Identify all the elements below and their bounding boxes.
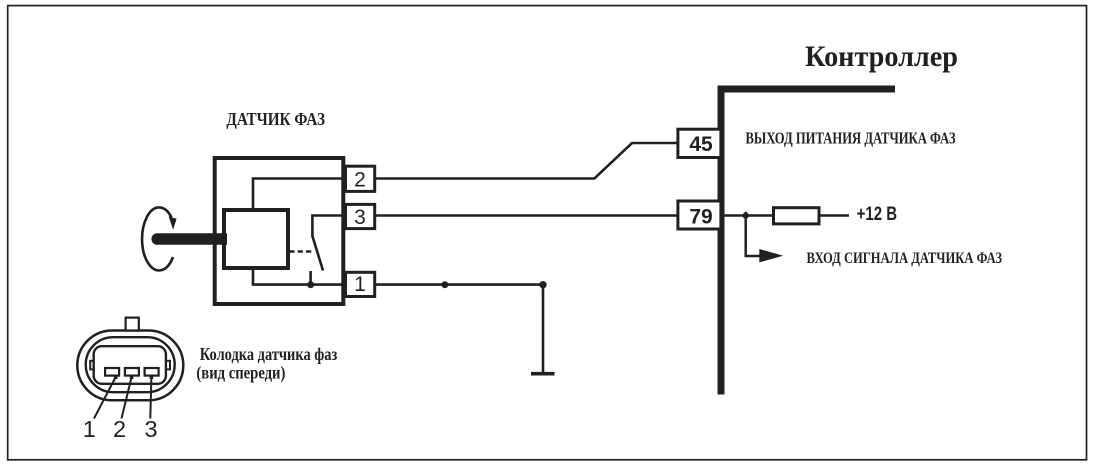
connector pin 1 [105,368,119,379]
wire: resistor to +12 V [821,214,850,217]
svg-text:(вид спереди): (вид спереди) [196,362,285,382]
wire: pin 1 to ground drop [375,283,543,286]
pin 3 [346,204,375,229]
ground [531,285,555,374]
connector shell (колодка outer) [77,331,183,401]
svg-text:ДАТЧИК ФАЗ: ДАТЧИК ФАЗ [226,109,325,129]
wire: inner element to pin 2 [253,179,346,211]
svg-text:ВЫХОД ПИТАНИЯ ДАТЧИКА ФАЗ: ВЫХОД ПИТАНИЯ ДАТЧИКА ФАЗ [746,129,956,148]
signal input arrow [746,218,784,262]
switch blade [312,236,323,271]
svg-text:1: 1 [354,273,366,296]
phase sensor body [215,158,344,304]
terminal 45 [678,129,721,157]
switch contact stub [309,271,312,285]
resistor (pull-up) [774,208,820,224]
wire: pin 3 to terminal 79 [375,214,677,217]
connector socket face with key notches [90,346,170,384]
leader to pin label 1 [94,377,116,419]
connector caption [196,344,337,383]
pin 2 [346,166,375,191]
wire: terminal 79 to resistor [725,214,773,217]
terminal 79 [678,201,721,229]
junction: switch stub on pin-1 wire [307,281,314,288]
junction on ground wire [441,281,448,288]
dashed actuation link [289,250,311,253]
svg-text:Колодка датчика фаз: Колодка датчика фаз [200,344,337,364]
connector pin 2 [125,368,139,379]
wire: pin 2 to terminal 45 [375,143,677,179]
svg-text:3: 3 [354,206,366,229]
svg-text:45: 45 [689,133,713,156]
rotation arrow [142,207,177,270]
junction at ground drop [539,281,546,288]
rotor shaft [151,233,227,245]
wire: switch to pin 3 [312,216,346,238]
junction at terminal 79 [741,211,750,220]
connector pin 3 [145,368,159,379]
controller boundary top bar [718,86,896,93]
svg-text:2: 2 [354,168,366,191]
wire: inner element to pin 1 [253,266,346,285]
svg-text:ВХОД СИГНАЛА ДАТЧИКА ФАЗ: ВХОД СИГНАЛА ДАТЧИКА ФАЗ [807,250,1003,267]
controller boundary vertical bar [718,86,725,395]
svg-text:3: 3 [144,416,157,442]
pin 1 [346,272,375,296]
svg-text:79: 79 [689,206,712,229]
connector key tab [126,318,139,331]
svg-text:Контроллер: Контроллер [805,41,958,73]
svg-text:2: 2 [113,416,126,442]
svg-text:+12 В: +12 В [857,204,898,225]
svg-text:1: 1 [83,416,96,442]
sensor inner element [224,210,288,268]
connector inner shell [86,337,175,392]
leader to pin label 3 [150,377,151,419]
leader to pin label 2 [122,377,132,419]
